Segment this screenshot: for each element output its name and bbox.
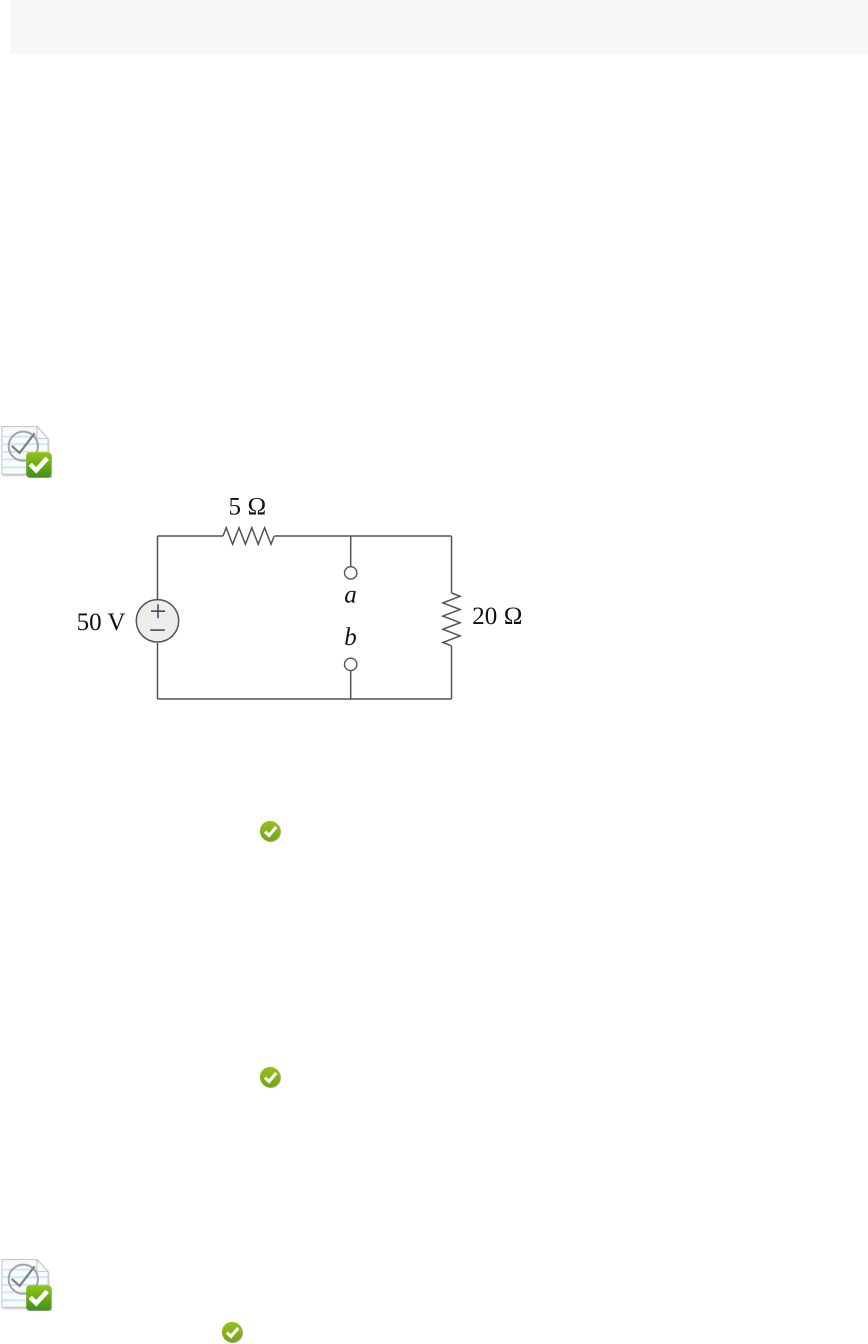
page with folded corner xyxy=(2,427,48,475)
green check icon 1 xyxy=(259,820,282,843)
svg-text:50 V: 50 V xyxy=(77,609,126,636)
watermark circle + check xyxy=(9,432,38,461)
circuit schematic xyxy=(60,485,540,710)
svg-text:5 Ω: 5 Ω xyxy=(229,494,267,521)
wire right lower xyxy=(451,646,453,699)
watermark circle + check xyxy=(9,1265,38,1294)
svg-text:b: b xyxy=(344,624,357,651)
ruled blue lines xyxy=(3,1270,48,1301)
document-check icon (top) xyxy=(1,426,52,478)
wire left lower xyxy=(157,643,159,699)
folded corner flap xyxy=(37,427,48,439)
middle branch upper wire xyxy=(350,536,352,566)
top toolbar strip xyxy=(11,0,868,54)
green check badge xyxy=(28,454,53,479)
page with folded corner xyxy=(2,1260,48,1308)
ruled blue lines xyxy=(3,437,48,468)
terminal b circle xyxy=(345,658,357,670)
resistor R1 5ohm zigzag xyxy=(223,528,274,545)
page shadow xyxy=(3,428,49,476)
plus sign of source xyxy=(150,604,165,630)
svg-text:20 Ω: 20 Ω xyxy=(472,603,522,630)
minus sign of source xyxy=(150,629,165,631)
wire bottom xyxy=(158,698,452,700)
terminal a circle xyxy=(345,567,357,579)
wire top xyxy=(158,535,224,537)
document-check icon (bottom) xyxy=(1,1259,52,1311)
page shadow xyxy=(3,1261,49,1309)
wire top right xyxy=(274,535,451,537)
wire right upper xyxy=(451,536,453,593)
middle branch lower wire xyxy=(350,671,352,699)
wire left upper xyxy=(157,536,159,599)
folded corner flap xyxy=(37,1260,48,1272)
green check icon 2 xyxy=(259,1066,282,1089)
svg-text:a: a xyxy=(344,582,357,609)
resistor R2 20ohm zigzag xyxy=(443,593,460,646)
voltage source V1 circle xyxy=(136,600,178,642)
green check icon 3 xyxy=(221,1321,244,1344)
green check badge xyxy=(28,1287,53,1312)
